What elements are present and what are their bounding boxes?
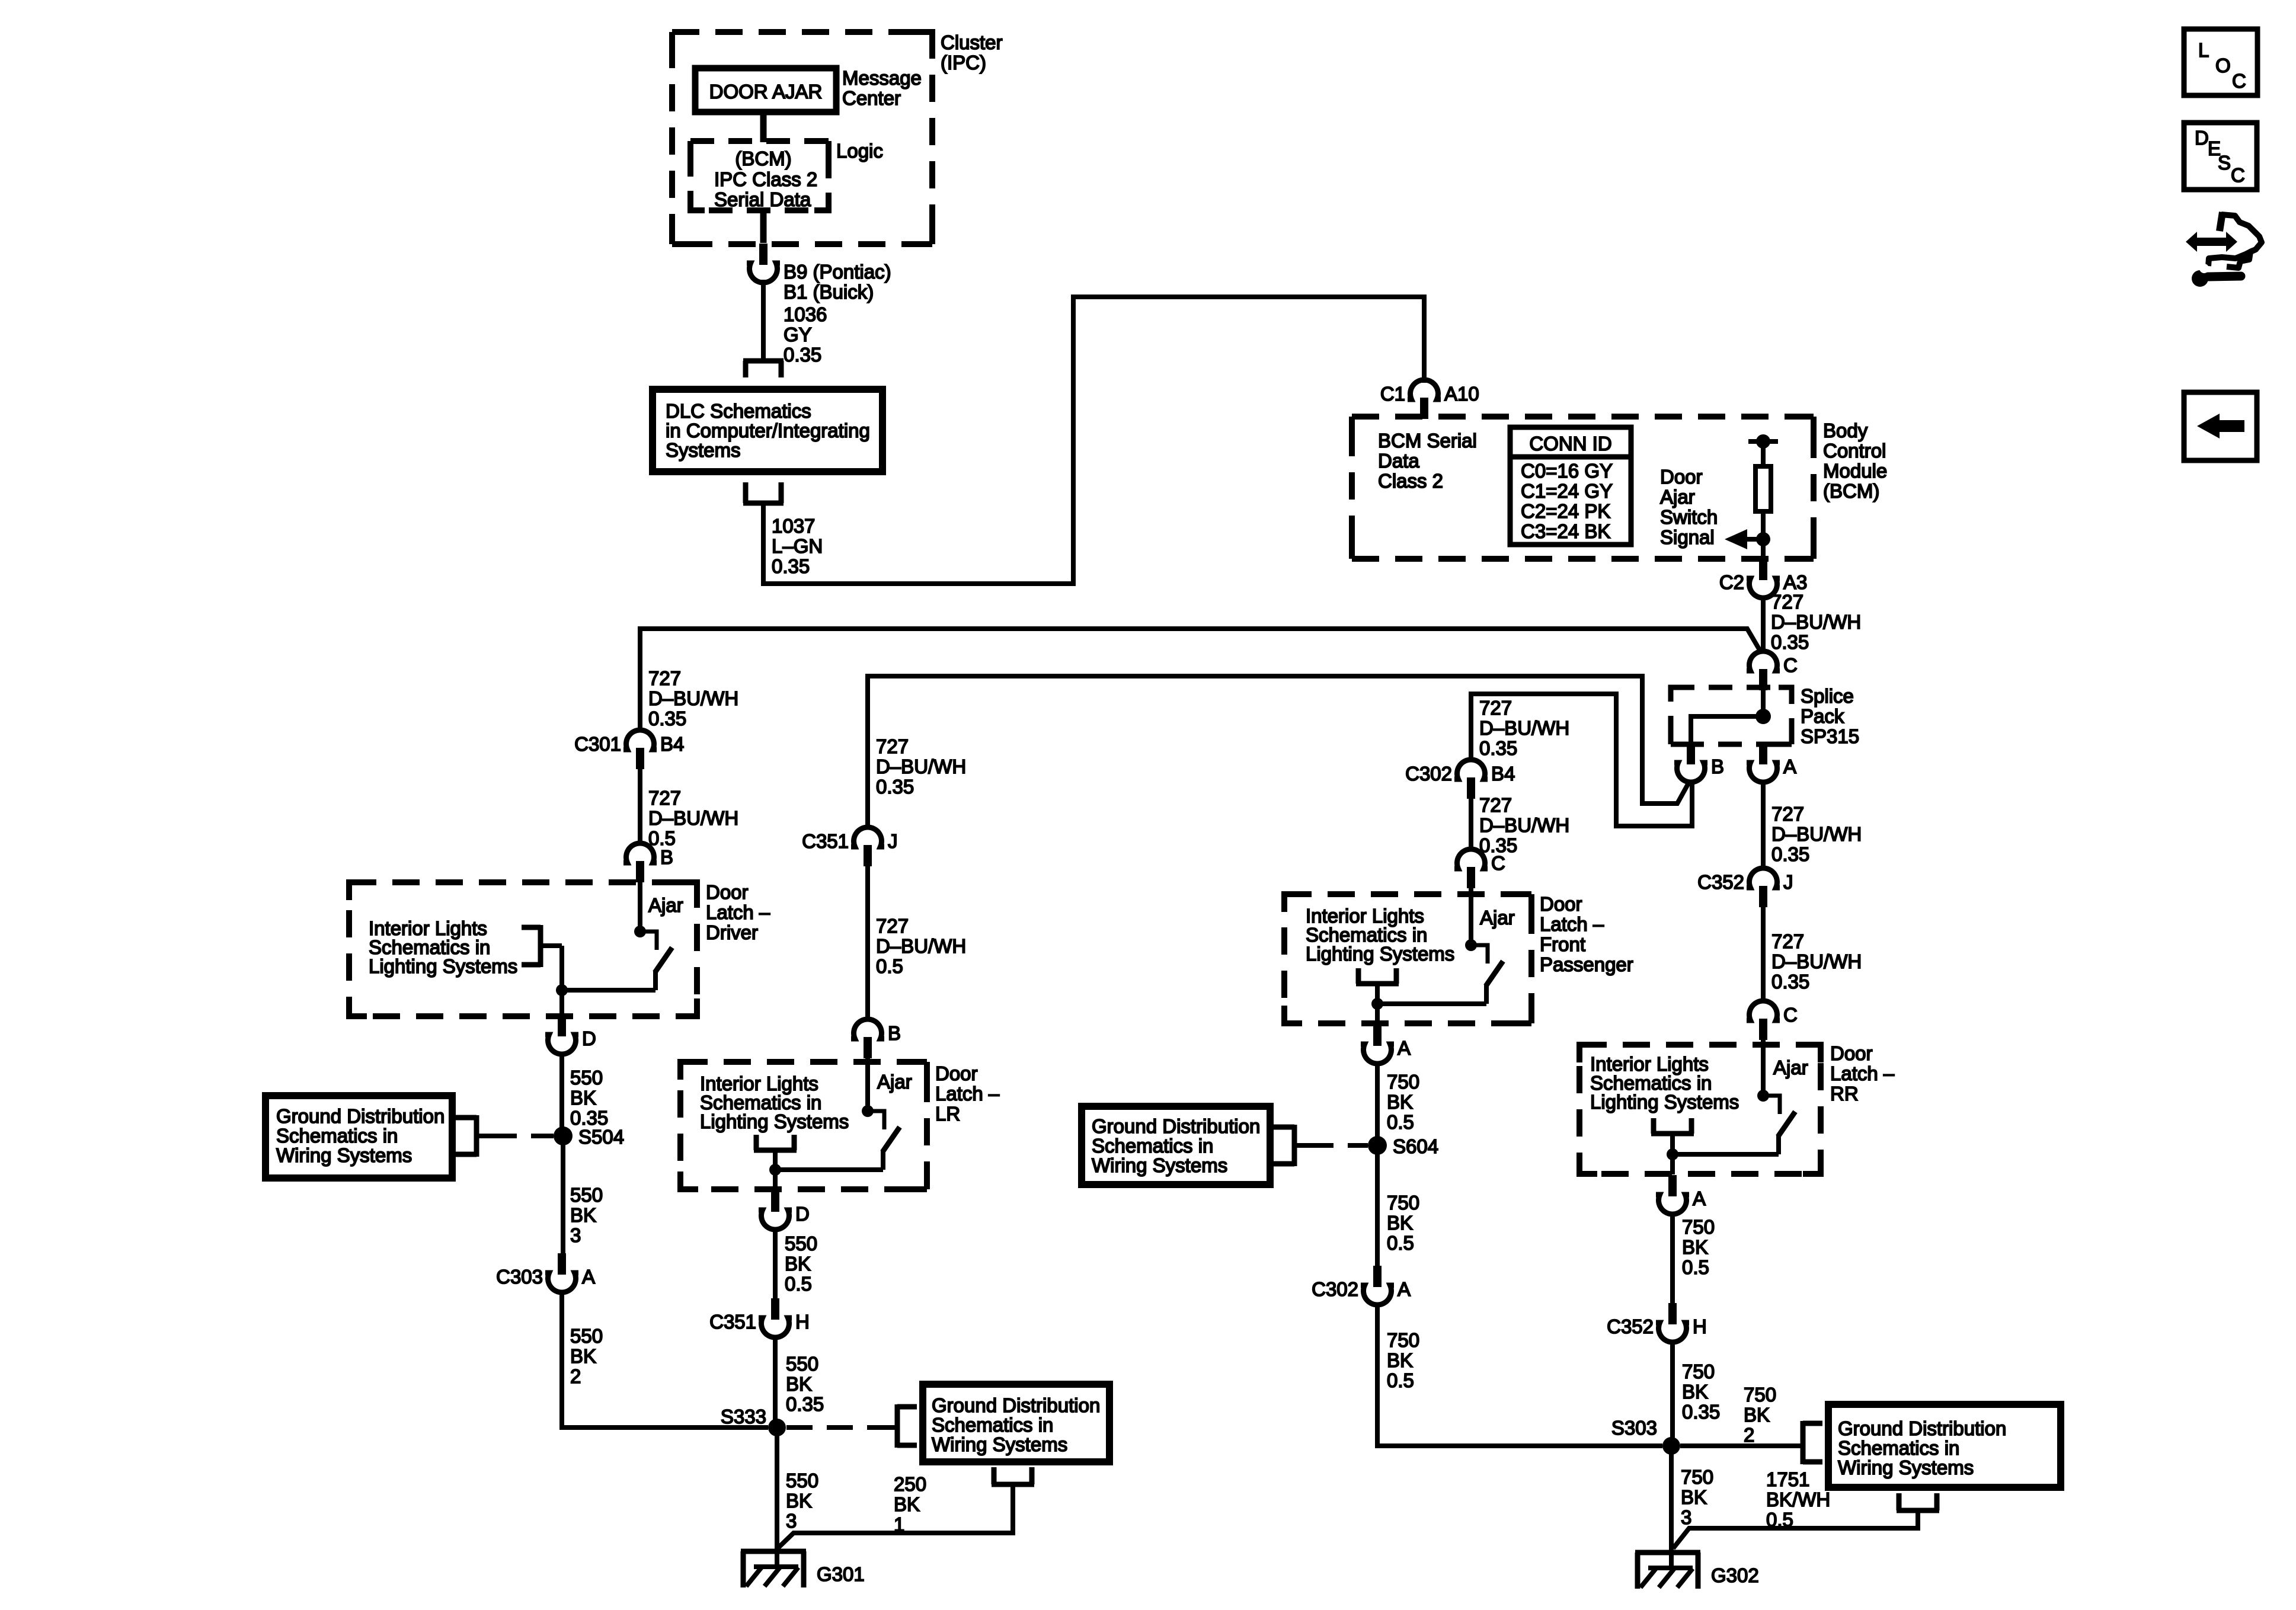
svg-text:750: 750	[1387, 1329, 1419, 1351]
svg-text:0.35: 0.35	[648, 708, 686, 729]
svg-text:727: 727	[1479, 697, 1512, 719]
interior lights bracket (FP)	[1356, 968, 1399, 984]
wire driver latch to D	[559, 990, 564, 1017]
wire 727 D-BU/WH 0.35 from C2	[1761, 596, 1766, 654]
svg-text:C351: C351	[802, 830, 849, 852]
door ajar switch (RR)	[1667, 1090, 1795, 1160]
connector A of splice pack	[1747, 743, 1796, 782]
wire into splice pack	[1761, 687, 1766, 716]
dashed reference wire to S604	[1294, 1143, 1307, 1148]
svg-text:750: 750	[1387, 1192, 1419, 1214]
svg-text:750: 750	[1681, 1466, 1713, 1488]
connector D below driver latch	[545, 1015, 596, 1054]
cluster IPC dashed box	[672, 32, 932, 244]
svg-text:Wiring Systems: Wiring Systems	[932, 1433, 1067, 1455]
svg-text:SP315: SP315	[1801, 725, 1859, 747]
svg-text:550: 550	[786, 1353, 818, 1375]
splice S604	[1368, 1136, 1387, 1155]
svg-text:1751: 1751	[1766, 1468, 1809, 1490]
svg-text:0.35: 0.35	[876, 776, 914, 798]
connector B at driver door latch	[623, 843, 673, 882]
interior lights bracket (driver)	[522, 925, 562, 967]
svg-text:D: D	[2195, 127, 2209, 149]
wire rail to resistor	[1761, 441, 1766, 466]
connector C1 A10 at BCM	[1380, 380, 1479, 419]
wire 750 BK 3 to G302	[1669, 1446, 1674, 1569]
svg-text:BK: BK	[1682, 1381, 1708, 1403]
svg-text:Ajar: Ajar	[877, 1071, 912, 1093]
svg-text:Center: Center	[842, 87, 901, 109]
connector C at FP door latch	[1454, 849, 1505, 888]
svg-text:Wiring Systems: Wiring Systems	[276, 1144, 412, 1166]
svg-text:Logic: Logic	[836, 140, 883, 162]
svg-text:Schematics in: Schematics in	[1092, 1135, 1213, 1157]
svg-text:0.5: 0.5	[1766, 1509, 1793, 1531]
svg-text:727: 727	[876, 735, 909, 757]
IPC logic dashed box	[690, 141, 829, 210]
wire 1036 GY 0.35	[761, 280, 766, 361]
svg-text:3: 3	[1681, 1506, 1691, 1528]
svg-text:Wiring Systems: Wiring Systems	[1092, 1154, 1227, 1176]
BCM internal rail	[1748, 439, 1778, 444]
svg-text:BK: BK	[785, 1253, 811, 1275]
wire bracket to switch return (FP)	[1375, 984, 1380, 1004]
svg-text:Module: Module	[1823, 460, 1887, 482]
bracket below ground distribution (S303)	[1897, 1493, 1939, 1510]
svg-text:A: A	[1398, 1278, 1411, 1300]
splice node SP315	[1755, 709, 1771, 724]
node on rail	[1756, 434, 1770, 449]
svg-text:727: 727	[876, 915, 909, 937]
svg-text:BK: BK	[786, 1490, 812, 1512]
svg-text:J: J	[1783, 871, 1793, 893]
svg-text:C: C	[1783, 1004, 1798, 1026]
ground distribution box (S604)	[1082, 1106, 1270, 1185]
svg-text:Door: Door	[706, 881, 749, 903]
svg-text:LR: LR	[935, 1103, 960, 1125]
svg-text:D–BU/WH: D–BU/WH	[648, 807, 738, 829]
svg-text:0.35: 0.35	[786, 1393, 824, 1415]
svg-text:Control: Control	[1823, 440, 1886, 462]
svg-text:A3: A3	[1783, 571, 1807, 593]
svg-text:(IPC): (IPC)	[941, 52, 986, 73]
svg-text:C3=24 BK: C3=24 BK	[1521, 520, 1610, 542]
bracket to ground distribution (S504)	[456, 1115, 477, 1157]
svg-text:Lighting Systems: Lighting Systems	[700, 1110, 849, 1132]
svg-text:S: S	[2218, 152, 2231, 174]
wire 727 from splice A to C352	[1761, 780, 1766, 870]
svg-text:750: 750	[1682, 1361, 1715, 1382]
svg-text:C351: C351	[709, 1311, 756, 1333]
DESC icon box	[2184, 123, 2257, 190]
svg-text:727: 727	[648, 787, 681, 809]
wire 727 to FP latch	[1469, 798, 1473, 852]
door ajar switch (front passenger)	[1371, 939, 1503, 1010]
svg-text:C2: C2	[1719, 571, 1744, 593]
wire 727 to RR door latch	[1761, 907, 1766, 1003]
wire 750 BK 0.5	[1375, 1061, 1380, 1145]
svg-text:B: B	[888, 1022, 901, 1044]
svg-text:Serial Data: Serial Data	[714, 188, 811, 210]
splice branch to B	[1691, 716, 1763, 744]
wire FP latch to A	[1375, 1004, 1380, 1024]
svg-text:A: A	[582, 1266, 595, 1288]
svg-text:Latch –: Latch –	[1830, 1062, 1895, 1084]
wire 550 BK 0.35 to S333	[773, 1335, 778, 1427]
svg-text:C302: C302	[1312, 1278, 1358, 1300]
svg-text:BCM Serial: BCM Serial	[1378, 430, 1477, 452]
svg-text:Lighting Systems: Lighting Systems	[1590, 1091, 1739, 1113]
svg-text:S303: S303	[1611, 1417, 1657, 1439]
svg-text:Ajar: Ajar	[1480, 907, 1515, 929]
svg-text:A: A	[1398, 1037, 1411, 1059]
resistor (switch signal pull-up)	[1755, 466, 1771, 511]
ground G301	[741, 1551, 865, 1587]
harness repair icon (arrow, connector, wrench)	[2186, 212, 2262, 287]
wire 1751 BK/WH 0.5	[1673, 1510, 1918, 1548]
node door ajar switch signal	[1756, 532, 1770, 546]
svg-text:C0=16 GY: C0=16 GY	[1521, 460, 1613, 482]
dashed reference wire to S504	[479, 1134, 491, 1138]
svg-text:(BCM): (BCM)	[1823, 480, 1879, 502]
svg-text:Latch –: Latch –	[706, 901, 770, 923]
svg-text:0.35: 0.35	[1771, 843, 1809, 865]
splice pack SP315 dashed box	[1671, 687, 1792, 744]
svg-text:Ground Distribution: Ground Distribution	[1092, 1115, 1260, 1137]
interior lights bracket (LR)	[754, 1135, 797, 1150]
svg-text:Ajar: Ajar	[1773, 1057, 1808, 1078]
svg-text:Ground Distribution: Ground Distribution	[1838, 1417, 2006, 1439]
svg-text:J: J	[888, 830, 898, 852]
svg-text:250: 250	[894, 1473, 926, 1495]
DLC connector bracket top	[743, 361, 784, 377]
connector C302 B4	[1405, 760, 1515, 799]
svg-text:0.35: 0.35	[1479, 737, 1517, 759]
svg-text:C302: C302	[1405, 763, 1452, 785]
svg-text:Body: Body	[1823, 420, 1868, 441]
svg-text:Driver: Driver	[706, 921, 758, 943]
svg-text:550: 550	[786, 1470, 818, 1491]
svg-text:in Computer/Integrating: in Computer/Integrating	[666, 420, 870, 441]
svg-text:727: 727	[1771, 803, 1804, 825]
svg-text:BK: BK	[570, 1204, 596, 1226]
svg-text:GY: GY	[784, 324, 812, 345]
door ajar switch signal arrow	[1725, 529, 1763, 549]
svg-text:C2=24 PK: C2=24 PK	[1521, 500, 1610, 522]
svg-text:C: C	[1491, 852, 1505, 874]
svg-text:BK: BK	[1682, 1236, 1708, 1258]
svg-text:C: C	[2231, 164, 2245, 186]
wire 750 BK 0.5 below S604	[1375, 1145, 1380, 1266]
svg-text:B4: B4	[1491, 763, 1515, 785]
svg-text:C1: C1	[1380, 383, 1405, 405]
svg-text:Cluster: Cluster	[941, 31, 1003, 53]
svg-text:0.5: 0.5	[1682, 1256, 1709, 1278]
svg-text:1037: 1037	[772, 515, 815, 537]
wire 750 BK 0.5 to S303	[1377, 1302, 1662, 1446]
svg-text:BK: BK	[894, 1493, 920, 1515]
svg-text:D–BU/WH: D–BU/WH	[1479, 814, 1569, 836]
splice S333	[768, 1419, 786, 1436]
svg-text:0.35: 0.35	[784, 344, 821, 366]
door latch front passenger dashed box	[1284, 894, 1531, 1023]
dashed reference wire from S333	[786, 1425, 885, 1430]
wire B into LR latch	[865, 1058, 870, 1111]
svg-text:BK/WH: BK/WH	[1766, 1489, 1830, 1510]
door latch RR dashed box	[1579, 1045, 1821, 1174]
wire 727 from LR branch to splice B (via diagonal)	[868, 676, 1690, 830]
svg-text:550: 550	[570, 1184, 603, 1206]
wire C into RR latch	[1761, 1039, 1766, 1096]
connector A below FP latch	[1361, 1025, 1411, 1064]
svg-text:H: H	[795, 1311, 810, 1333]
svg-text:D–BU/WH: D–BU/WH	[1771, 823, 1862, 845]
wire 250 BK 1	[778, 1484, 1013, 1548]
svg-text:Lighting Systems: Lighting Systems	[369, 955, 517, 977]
svg-text:C352: C352	[1697, 871, 1744, 893]
splice S504	[554, 1126, 573, 1145]
svg-text:CONN ID: CONN ID	[1529, 433, 1611, 454]
ground G302	[1635, 1553, 1759, 1589]
svg-text:BK: BK	[570, 1345, 596, 1367]
svg-text:Lighting Systems: Lighting Systems	[1306, 943, 1454, 965]
svg-text:727: 727	[1771, 930, 1804, 952]
svg-text:Wiring Systems: Wiring Systems	[1838, 1457, 1974, 1478]
interior lights bracket (RR)	[1651, 1118, 1694, 1134]
svg-text:0.5: 0.5	[876, 955, 903, 977]
svg-text:S504: S504	[578, 1126, 624, 1148]
wire 750 BK 2 to ground distribution	[1680, 1443, 1802, 1448]
connector C352 J	[1697, 868, 1793, 907]
svg-text:BK: BK	[1387, 1212, 1413, 1234]
connector B at LR door latch	[851, 1019, 901, 1058]
svg-text:B9 (Pontiac): B9 (Pontiac)	[784, 261, 891, 283]
connector C302 A	[1312, 1266, 1411, 1305]
back arrow icon box	[2184, 392, 2257, 460]
bracket below ground distribution (S333)	[992, 1467, 1034, 1484]
svg-text:C1=24 GY: C1=24 GY	[1521, 480, 1613, 502]
svg-text:2: 2	[570, 1365, 581, 1387]
connector C2 A3 below BCM	[1719, 559, 1808, 598]
svg-text:Pack: Pack	[1801, 705, 1844, 727]
svg-text:Door: Door	[1540, 893, 1582, 915]
wire bracket to switch return (LR)	[773, 1150, 778, 1170]
svg-text:C301: C301	[574, 733, 621, 755]
wire 550 BK 0.5	[773, 1227, 778, 1299]
svg-text:0.35: 0.35	[1682, 1401, 1720, 1423]
svg-text:C: C	[2232, 70, 2246, 92]
svg-text:RR: RR	[1830, 1083, 1859, 1105]
svg-text:D–BU/WH: D–BU/WH	[1771, 611, 1861, 633]
svg-text:Passenger: Passenger	[1540, 953, 1633, 975]
svg-text:A: A	[1783, 756, 1796, 777]
svg-text:Ajar: Ajar	[648, 894, 683, 916]
svg-text:B: B	[660, 846, 673, 868]
DOOR AJAR indicator box	[695, 68, 836, 112]
svg-text:D–BU/WH: D–BU/WH	[648, 687, 738, 709]
wire 550 BK 0.35	[559, 1052, 564, 1136]
svg-text:BK: BK	[786, 1373, 812, 1395]
svg-text:1: 1	[894, 1513, 904, 1535]
svg-text:C303: C303	[496, 1266, 543, 1288]
svg-text:BK: BK	[1681, 1486, 1707, 1508]
connector B of splice pack	[1674, 743, 1724, 782]
wire 750 BK 0.5 (RR)	[1670, 1212, 1675, 1304]
svg-text:C: C	[1783, 654, 1798, 676]
svg-text:L–GN: L–GN	[772, 535, 823, 557]
wire RR latch to A	[1670, 1154, 1675, 1174]
svg-text:Latch –: Latch –	[1540, 913, 1604, 935]
wire 1037 L-GN 0.35 to BCM	[763, 297, 1424, 584]
wire resistor to C2	[1761, 511, 1766, 560]
connector C351 H	[709, 1298, 810, 1337]
svg-text:750: 750	[1744, 1384, 1776, 1406]
connector C at splice pack	[1747, 651, 1798, 690]
wire 727 to driver branch (long horizontal)	[640, 629, 1761, 732]
bracket to ground distribution (S604)	[1274, 1125, 1294, 1166]
svg-text:Splice: Splice	[1801, 685, 1854, 707]
svg-text:B1 (Buick): B1 (Buick)	[784, 281, 874, 303]
svg-text:2: 2	[1744, 1424, 1754, 1446]
svg-text:B4: B4	[660, 733, 684, 755]
svg-text:A10: A10	[1444, 383, 1479, 405]
connector C303 A	[496, 1253, 595, 1292]
svg-text:750: 750	[1387, 1071, 1419, 1093]
svg-text:0.35: 0.35	[772, 555, 810, 577]
wire LR latch to D	[773, 1170, 778, 1190]
svg-text:550: 550	[785, 1233, 817, 1254]
svg-text:D: D	[582, 1028, 596, 1049]
splice S303	[1662, 1437, 1680, 1455]
wire interior lights to switch return (driver)	[559, 946, 564, 990]
svg-text:Schematics in: Schematics in	[276, 1125, 398, 1147]
svg-text:(BCM): (BCM)	[735, 148, 791, 169]
wire bracket to switch return (RR)	[1670, 1134, 1675, 1154]
door ajar switch (driver)	[556, 926, 672, 996]
body control module dashed box	[1352, 417, 1814, 559]
svg-text:BK: BK	[1387, 1349, 1413, 1371]
svg-text:Door: Door	[1660, 466, 1703, 488]
svg-text:Data: Data	[1378, 450, 1419, 472]
connector C352 H	[1607, 1303, 1707, 1342]
svg-text:727: 727	[648, 667, 681, 689]
connector B9/B1 at IPC	[747, 244, 780, 283]
svg-text:D–BU/WH: D–BU/WH	[876, 756, 966, 777]
bracket to ground distribution (S303)	[1803, 1421, 1822, 1464]
svg-text:Schematics in: Schematics in	[932, 1414, 1053, 1436]
wire 750 BK 0.35 to S303	[1670, 1340, 1675, 1446]
svg-text:1036: 1036	[784, 303, 827, 325]
connector C at RR door latch	[1747, 1001, 1798, 1040]
svg-text:S333: S333	[721, 1406, 766, 1427]
svg-text:O: O	[2215, 55, 2231, 76]
svg-text:DOOR AJAR: DOOR AJAR	[709, 81, 823, 103]
connector C301 B4	[574, 730, 684, 769]
wire logic box to IPC connector	[760, 210, 767, 243]
wire 550 BK 3 below S504	[561, 1136, 565, 1254]
svg-text:727: 727	[1479, 794, 1512, 816]
svg-text:L: L	[2198, 39, 2209, 61]
svg-text:0.5: 0.5	[1387, 1232, 1414, 1254]
svg-text:BK: BK	[1744, 1404, 1770, 1426]
svg-text:0.5: 0.5	[1387, 1369, 1414, 1391]
svg-text:B: B	[1711, 756, 1724, 777]
svg-text:Signal: Signal	[1660, 526, 1715, 548]
ground distribution box (S303)	[1828, 1404, 2061, 1487]
connector C351 J	[802, 827, 897, 866]
svg-text:BK: BK	[1387, 1091, 1413, 1113]
connector A below RR latch	[1656, 1175, 1706, 1214]
svg-text:Front: Front	[1540, 933, 1585, 955]
door latch LR dashed box	[680, 1062, 927, 1189]
door ajar switch (LR)	[769, 1105, 900, 1176]
svg-text:A: A	[1693, 1188, 1706, 1209]
wire 727 D-BU/WH 0.5 to LR latch	[865, 866, 870, 1022]
CONN ID table	[1510, 427, 1631, 545]
svg-text:Door: Door	[935, 1062, 978, 1084]
svg-text:Switch: Switch	[1660, 506, 1718, 528]
svg-text:Schematics in: Schematics in	[1838, 1437, 1959, 1459]
svg-text:550: 550	[570, 1325, 603, 1347]
svg-text:S604: S604	[1393, 1135, 1438, 1157]
wire 727 from front passenger branch to splice B	[1471, 694, 1692, 826]
svg-text:3: 3	[786, 1510, 797, 1532]
svg-text:Systems: Systems	[666, 439, 741, 461]
wire 550 BK 2 to S333	[562, 1290, 768, 1427]
svg-text:0.35: 0.35	[1771, 971, 1809, 993]
svg-text:D–BU/WH: D–BU/WH	[1479, 717, 1569, 739]
svg-text:D: D	[795, 1203, 810, 1225]
svg-text:0.35: 0.35	[1771, 631, 1809, 653]
svg-text:727: 727	[1771, 591, 1803, 613]
svg-text:BK: BK	[570, 1087, 596, 1109]
svg-text:Latch –: Latch –	[935, 1083, 1000, 1105]
DLC Schematics box	[653, 389, 882, 472]
svg-text:C352: C352	[1607, 1315, 1654, 1337]
svg-text:G301: G301	[817, 1563, 865, 1585]
door latch driver dashed box	[349, 882, 697, 1016]
bracket to ground distribution (S333)	[897, 1404, 917, 1448]
svg-text:0.5: 0.5	[785, 1273, 812, 1295]
svg-text:DLC Schematics: DLC Schematics	[666, 400, 811, 422]
svg-text:H: H	[1693, 1315, 1707, 1337]
svg-text:D–BU/WH: D–BU/WH	[1771, 950, 1862, 972]
wire C into FP latch	[1469, 888, 1473, 945]
svg-text:IPC Class 2: IPC Class 2	[714, 168, 817, 190]
LOC icon box	[2184, 29, 2257, 95]
svg-text:Message: Message	[842, 67, 922, 89]
svg-text:Class 2: Class 2	[1378, 470, 1443, 492]
svg-text:750: 750	[1682, 1216, 1715, 1238]
DLC connector bracket bottom	[743, 482, 784, 503]
wire DOOR AJAR to logic box	[760, 112, 767, 142]
wire 550 BK 3 to G301	[775, 1427, 779, 1568]
svg-text:0.5: 0.5	[1387, 1111, 1414, 1133]
svg-text:Ground Distribution: Ground Distribution	[276, 1105, 445, 1127]
ground distribution box (S504)	[266, 1096, 452, 1178]
svg-text:Ground Distribution: Ground Distribution	[932, 1394, 1100, 1416]
svg-text:550: 550	[570, 1067, 603, 1089]
ground distribution box (S333)	[923, 1384, 1109, 1462]
wire 727 D-BU/WH 0.5 to driver latch	[638, 769, 642, 846]
svg-text:G302: G302	[1711, 1564, 1759, 1586]
svg-text:3: 3	[570, 1224, 581, 1246]
wire B into driver latch	[638, 882, 642, 932]
svg-text:Ajar: Ajar	[1660, 486, 1695, 508]
connector D below LR latch	[759, 1190, 810, 1230]
svg-text:Door: Door	[1830, 1042, 1873, 1064]
svg-text:D–BU/WH: D–BU/WH	[876, 935, 966, 957]
